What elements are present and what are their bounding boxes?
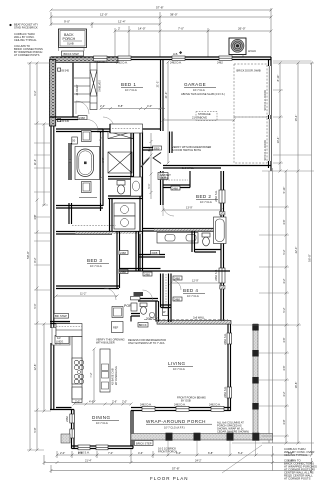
svg-text:CEDAR (WHERE SHOWN): CEDAR (WHERE SHOWN) [217, 430, 249, 434]
interior dim garage string [162, 119, 236, 122]
svg-text:5'-10": 5'-10" [282, 187, 286, 194]
wc toilet [117, 181, 125, 195]
kitchen island [100, 349, 110, 392]
svg-text:26'-0": 26'-0" [238, 27, 246, 31]
leader diagonal porch corner [222, 445, 262, 473]
svg-text:BED 4: BED 4 [183, 288, 198, 293]
porch slab band south [131, 433, 273, 441]
bed3 east wall [117, 232, 120, 289]
powder room walls [138, 299, 159, 322]
svg-text:STORAGE: STORAGE [198, 112, 211, 116]
utility north wall [142, 132, 172, 154]
dining west wall [70, 410, 75, 449]
right dimension line outer [310, 62, 313, 457]
svg-text:2462 D.H.: 2462 D.H. [209, 403, 221, 407]
svg-text:AT CORNER POSTS: AT CORNER POSTS [14, 53, 40, 57]
svg-text:BED 1: BED 1 [121, 82, 136, 87]
kitchen north counter [56, 324, 82, 337]
svg-text:AT CORNER POSTS: AT CORNER POSTS [284, 477, 311, 480]
door label 3050 [153, 146, 162, 150]
master tub racetrack [77, 149, 94, 177]
svg-text:BRICK: BRICK [139, 323, 147, 327]
svg-text:REF: REF [113, 326, 119, 330]
linen built-in tall [90, 63, 97, 110]
svg-text:2462 S.H.: 2462 S.H. [223, 386, 227, 398]
bed1 garage common wall [161, 60, 164, 132]
svg-text:38'-0": 38'-0" [170, 13, 178, 17]
hall east wall [136, 232, 139, 272]
angled wall opening triangle [153, 153, 161, 164]
east wall sill hatch 2 [220, 286, 226, 290]
interior dim string bed4 [170, 282, 223, 285]
svg-text:10'-7 CLG: 10'-7 CLG [125, 88, 137, 92]
east wall bedrooms [219, 171, 225, 322]
porch screen band east [252, 324, 258, 438]
svg-text:WRAP-AROUND PORCH: WRAP-AROUND PORCH [146, 419, 206, 424]
svg-text:5'-1": 5'-1" [147, 183, 151, 188]
master toilet below tub [82, 182, 92, 193]
svg-text:BRICK STEP: BRICK STEP [136, 442, 152, 446]
hose bib symbol top wall [173, 51, 182, 56]
wc south wall [108, 196, 142, 199]
water heater box [163, 308, 169, 316]
exterior landing steps west [52, 328, 70, 346]
bed2 door arc [163, 205, 174, 216]
room label GARAGE [181, 82, 225, 96]
bottom dimension tier 3 [50, 458, 314, 473]
svg-text:2462: 2462 [65, 416, 69, 422]
bed4 closet rod dashed [165, 274, 167, 306]
bath2 mid walls [192, 231, 221, 252]
svg-text:2'-0": 2'-0" [60, 451, 65, 455]
svg-text:2'-0": 2'-0" [75, 400, 80, 404]
master tub platform [75, 147, 100, 180]
pt deck note [221, 427, 223, 430]
room label BED 1 [121, 82, 143, 92]
bed3 closet rod [72, 225, 116, 227]
svg-text:SLAB: SLAB [67, 42, 74, 46]
svg-text:21'-9": 21'-9" [164, 92, 168, 99]
verify note center [172, 145, 211, 152]
svg-text:4'-6": 4'-6" [282, 337, 286, 342]
svg-text:2462 D.H.: 2462 D.H. [140, 403, 152, 407]
svg-text:6'-8": 6'-8" [288, 459, 293, 463]
side step SW [61, 434, 70, 443]
svg-text:2468: 2468 [144, 272, 150, 276]
dimension line top tier 1 (57'-8") [50, 8, 273, 57]
window living east 1 [227, 333, 232, 344]
svg-text:ABOVE: ABOVE [198, 116, 207, 120]
bottom dimension tier 2 [43, 446, 314, 471]
window living east 2 [227, 387, 232, 398]
living east wall [227, 322, 232, 411]
brick step label west [54, 314, 69, 319]
svg-text:14'-0": 14'-0" [138, 27, 146, 31]
interior dim bed3 [55, 295, 119, 298]
right dimension line porch posts [285, 170, 288, 445]
svg-text:21'-3": 21'-3" [156, 81, 160, 88]
brick label boxes hall south [138, 323, 148, 328]
svg-text:57'-8": 57'-8" [172, 467, 180, 471]
svg-text:2468: 2468 [174, 297, 180, 301]
svg-text:30HD CLG: 30HD CLG [146, 317, 159, 321]
bed2 room label [196, 194, 218, 204]
living ceiling break dashed [144, 316, 228, 321]
pantry box [112, 307, 123, 318]
svg-text:STAD FACE BRICK: STAD FACE BRICK [14, 26, 38, 30]
svg-text:10'-7 CLG (A.F.F.): 10'-7 CLG (A.F.F.) [164, 426, 185, 430]
svg-text:10'-7 CLG: 10'-7 CLG [187, 294, 199, 298]
west wall lower double line [50, 126, 62, 410]
bottom dimension tier 1 [56, 449, 314, 463]
kitchen sink counter [72, 387, 82, 399]
interior dim string above dining [73, 403, 133, 406]
svg-text:4'-6": 4'-6" [138, 451, 143, 455]
back porch slab box [59, 29, 87, 48]
entry door arc [76, 101, 89, 114]
svg-text:5'-4": 5'-4" [78, 451, 83, 455]
svg-text:12'-0": 12'-0" [100, 13, 108, 17]
svg-text:BY OSB: BY OSB [181, 399, 191, 403]
left dim connector stubs [27, 63, 51, 450]
bed1 entry door arc [103, 117, 114, 128]
closet mid wall [131, 132, 134, 197]
svg-text:42 BASE CAB: 42 BASE CAB [111, 368, 115, 385]
garage east wall [268, 57, 271, 171]
svg-text:4'-2": 4'-2" [282, 278, 286, 283]
house sw step wall [50, 408, 74, 410]
note block top-left text [14, 23, 43, 58]
note block top-left bullet [9, 24, 11, 26]
svg-text:5'-2": 5'-2" [282, 249, 286, 254]
svg-text:57'-8": 57'-8" [156, 6, 164, 10]
entry south wall [50, 117, 78, 120]
svg-text:WITH BUILDER: WITH BUILDER [96, 341, 115, 345]
side door opening west wall [50, 328, 55, 343]
svg-text:16'-7 CLG: 16'-7 CLG [193, 88, 205, 92]
bed3 door arc [104, 288, 116, 300]
svg-text:2462: 2462 [217, 61, 223, 65]
bath2 north wall [142, 229, 221, 232]
label B545 upper [58, 68, 70, 72]
entry door label [78, 116, 87, 120]
svg-text:2'-6": 2'-6" [112, 400, 117, 404]
svg-text:ABOVE: ABOVE [160, 177, 169, 180]
svg-text:7'-2": 7'-2" [89, 372, 93, 377]
bed4 door labels [143, 272, 152, 276]
svg-text:2468: 2468 [174, 276, 180, 280]
bath west partition wall [69, 143, 71, 180]
master bath north wall [56, 129, 103, 132]
svg-text:W/ OVERHANG: W/ OVERHANG [114, 366, 118, 385]
wc room walls [108, 177, 133, 180]
window top wall 2 [172, 56, 185, 60]
svg-text:11'-4": 11'-4" [33, 159, 37, 165]
svg-text:24'-2": 24'-2" [195, 459, 202, 463]
brick step box below back porch [59, 48, 85, 57]
garage overhead door 2 dashed [234, 117, 267, 163]
living room label [168, 361, 193, 371]
dining east edge [131, 411, 133, 449]
svg-text:10'-7 CLG: 10'-7 CLG [96, 421, 108, 425]
svg-text:21'-4": 21'-4" [85, 459, 92, 463]
porch columns note [217, 421, 249, 434]
svg-text:2462 S.H.: 2462 S.H. [214, 190, 218, 202]
svg-text:CEILING TYPICAL: CEILING TYPICAL [14, 38, 37, 42]
note block bottom-right [284, 447, 317, 480]
left dimension line inner [43, 123, 46, 413]
recess for refrigerator note [128, 338, 166, 345]
svg-text:4'-0": 4'-0" [147, 104, 152, 108]
svg-text:BRICK DOOR JAMB: BRICK DOOR JAMB [237, 69, 261, 73]
bed4 door arc [171, 280, 181, 290]
svg-text:SHELVES: SHELVES [98, 80, 102, 92]
master bath east wall [101, 129, 104, 211]
svg-text:12'-9": 12'-9" [192, 279, 199, 283]
dining room label [92, 415, 119, 425]
west exterior brick wall upper [50, 60, 56, 127]
laundry door 45 leaf [141, 158, 150, 168]
svg-text:12'-8": 12'-8" [33, 364, 37, 371]
entry closet shelf rungs [74, 78, 90, 102]
living south wall [131, 403, 231, 412]
svg-text:8'-2": 8'-2" [33, 257, 37, 262]
mud bench wall [131, 314, 140, 322]
svg-text:10'-4": 10'-4" [276, 137, 280, 144]
svg-text:2462 D.H.: 2462 D.H. [174, 403, 186, 407]
washer box [114, 203, 135, 216]
cabinet above note [160, 174, 171, 180]
entry door arc2 [87, 120, 98, 131]
svg-text:9'-2": 9'-2" [33, 90, 37, 95]
bath2 vanity [157, 233, 198, 244]
interior dim bed1 [100, 107, 166, 110]
right dimension line garage [279, 62, 282, 173]
svg-text:2'-0": 2'-0" [122, 400, 127, 404]
svg-text:9070 O.H. DOOR: 9070 O.H. DOOR [263, 140, 267, 160]
svg-text:2462 D.H.: 2462 D.H. [170, 61, 182, 65]
kitchen interior dim line [93, 348, 96, 404]
bed2 closet label [158, 173, 168, 180]
bed4 closet south [161, 305, 172, 308]
garage south wall [163, 166, 271, 169]
bed2 west wall [161, 171, 164, 205]
bed3 door label [119, 251, 128, 255]
hall door arc near powder [143, 290, 153, 300]
interior dim bed2 [162, 209, 223, 212]
bath label box 5050 [72, 137, 78, 144]
svg-text:BED 3: BED 3 [87, 258, 102, 263]
svg-text:9'-0": 9'-0" [64, 20, 70, 24]
svg-text:11'-2": 11'-2" [80, 292, 86, 296]
svg-text:22'-0": 22'-0" [294, 247, 298, 254]
bed4 room label [183, 288, 205, 298]
svg-text:21 DEEP: 21 DEEP [75, 84, 79, 95]
exterior top wall [50, 56, 271, 65]
master closet shelves box 1 [108, 132, 133, 139]
bed3 closet wall [69, 203, 72, 224]
porch east slab edge [269, 168, 273, 443]
svg-text:13'-9": 13'-9" [186, 206, 193, 210]
svg-text:3050: 3050 [154, 146, 160, 150]
svg-text:2468: 2468 [152, 251, 158, 255]
svg-text:LIVING: LIVING [168, 361, 185, 366]
bed2 closet [163, 171, 190, 188]
svg-text:GARAGE: GARAGE [184, 82, 206, 87]
svg-text:56'-0": 56'-0" [308, 254, 312, 262]
right dim connector stubs [232, 61, 314, 443]
bath2 door label [151, 251, 160, 255]
window living south 3 [211, 406, 224, 411]
window top wall 1 [118, 56, 131, 60]
svg-text:6'-0": 6'-0" [176, 451, 181, 455]
svg-text:6'-8": 6'-8" [101, 157, 105, 162]
svg-text:4'-6": 4'-6" [89, 400, 94, 404]
svg-text:8'-0": 8'-0" [288, 451, 293, 455]
bottom porch post ticks [168, 441, 256, 456]
svg-text:5'-4": 5'-4" [238, 451, 243, 455]
front porch step label [158, 447, 177, 454]
refrigerator box [112, 322, 124, 333]
entry closet west wall [72, 63, 74, 118]
svg-text:7'-0": 7'-0" [178, 27, 184, 31]
stove dark box [134, 292, 144, 296]
svg-text:2'-2": 2'-2" [100, 104, 105, 108]
powder sink [149, 312, 154, 317]
svg-text:LNDG: LNDG [56, 340, 63, 344]
svg-text:2468: 2468 [120, 270, 126, 274]
svg-text:ABOVE THIS HOUSE SLAB (4 R.I.S: ABOVE THIS HOUSE SLAB (4 R.I.S.) [181, 92, 225, 96]
ext landing label [55, 336, 69, 344]
dimension line top tier 3 (19'-0") [50, 22, 162, 28]
wall jog bed4 to living hatched [157, 321, 231, 325]
garage storage dashed box [196, 112, 217, 121]
svg-text:16'-8": 16'-8" [294, 382, 298, 389]
svg-text:ONLY EXTENDS UP TO 7' AFA: ONLY EXTENDS UP TO 7' AFA [128, 341, 165, 345]
left dimension line mid [36, 62, 39, 452]
east wall sill hatch 1 [220, 212, 226, 216]
dimension line top tier 4 [114, 12, 273, 57]
svg-text:2468: 2468 [172, 186, 178, 190]
verify opening note kitchen [96, 338, 125, 345]
svg-text:FRONT PORCH: FRONT PORCH [158, 450, 177, 454]
svg-text:4'-6": 4'-6" [282, 219, 286, 224]
svg-text:6'-8": 6'-8" [208, 451, 213, 455]
svg-text:5'-2": 5'-2" [282, 307, 286, 312]
left dimension line outer [29, 62, 32, 452]
bath2 tub [214, 217, 227, 244]
master bath south wall [56, 206, 103, 209]
svg-text:2462 S.H.: 2462 S.H. [214, 269, 218, 281]
bath shelf line [79, 197, 97, 199]
dimension line top tier 2 (38'-0") [50, 16, 273, 19]
dryer box [114, 216, 135, 229]
svg-text:4'-2": 4'-2" [282, 391, 286, 396]
label B545 lower [58, 119, 70, 123]
master closet north walls [97, 129, 161, 132]
window living south 2 [176, 406, 189, 411]
svg-text:4'-6": 4'-6" [282, 365, 286, 370]
bed4 west closet wall [161, 274, 164, 308]
svg-text:BR. STEP: BR. STEP [55, 314, 67, 318]
window east bed2 [219, 190, 225, 203]
bath2 toilet [202, 233, 210, 246]
dining south wall [72, 445, 134, 455]
svg-text:5'-0": 5'-0" [33, 303, 37, 308]
svg-text:2468: 2468 [120, 251, 126, 255]
svg-text:8'-8": 8'-8" [118, 104, 123, 108]
svg-text:2x6 WALL: 2x6 WALL [182, 166, 194, 170]
powder toilet [140, 303, 147, 314]
svg-text:50'-0": 50'-0" [26, 251, 30, 259]
window east bed4 [219, 268, 225, 283]
svg-text:5'-8": 5'-8" [33, 427, 37, 432]
master shower [82, 131, 92, 142]
svg-text:FLOOR PLAN: FLOOR PLAN [150, 476, 189, 480]
right dimension line mid [297, 62, 300, 445]
master closet shelves box 2 [108, 152, 132, 173]
bath2 south wall [138, 255, 165, 258]
svg-text:2462 D.H.: 2462 D.H. [116, 61, 128, 65]
svg-text:2x6 WALL: 2x6 WALL [193, 316, 205, 320]
svg-text:2468: 2468 [79, 116, 85, 120]
laundry south wall hatch [75, 232, 142, 234]
bed1 closet [110, 124, 143, 133]
bed4 closet east wall [169, 274, 172, 323]
HVAC unit pad [229, 38, 257, 57]
svg-text:21'-3": 21'-3" [192, 116, 199, 120]
svg-text:7'-0": 7'-0" [108, 451, 113, 455]
svg-text:15'-4": 15'-4" [294, 115, 298, 122]
svg-text:8'-10": 8'-10" [276, 75, 280, 82]
laundry left appliance [131, 177, 142, 196]
bed3 room label [87, 258, 109, 268]
svg-text:10'-7 CLG: 10'-7 CLG [173, 367, 185, 371]
window top wall 3 [219, 56, 232, 60]
svg-text:10'-7 CLG: 10'-7 CLG [200, 200, 212, 204]
svg-text:12'-4": 12'-4" [118, 20, 126, 24]
svg-text:H.B.: H.B. [173, 52, 178, 56]
wrap-around porch label [146, 419, 212, 430]
bed2 closet door label [171, 186, 180, 190]
garage interior dim line [167, 61, 170, 165]
window living south 1 [142, 406, 155, 411]
kitchen west counter with range [72, 337, 84, 403]
brick step box front porch [135, 441, 154, 446]
svg-text:4'-8": 4'-8" [282, 419, 286, 424]
hall west wall center [140, 132, 143, 272]
bed3 door 2 label [119, 270, 128, 274]
svg-text:BRICK STEP: BRICK STEP [64, 52, 80, 56]
small box left of powder [131, 303, 137, 311]
svg-text:HVAC: HVAC [248, 49, 257, 53]
svg-text:& DOOR SWITCH BOTH: & DOOR SWITCH BOTH [172, 148, 201, 152]
laundry walls [110, 199, 113, 233]
hall cross walls center [119, 269, 230, 272]
hall center dim string [150, 133, 153, 199]
bath interior dim [99, 133, 102, 203]
svg-text:BED 2: BED 2 [196, 194, 211, 199]
svg-text:10'-7 CLG: 10'-7 CLG [90, 264, 102, 268]
svg-text:IB 545: IB 545 [62, 68, 70, 72]
svg-text:PORCH: PORCH [63, 37, 76, 41]
kitchen west step wall [50, 322, 70, 324]
garage overhead door 1 dashed [234, 64, 267, 117]
front porch beams note [177, 396, 206, 403]
svg-text:9070 O.H. DOOR: 9070 O.H. DOOR [263, 90, 267, 110]
svg-text:4'-2": 4'-2" [147, 146, 151, 151]
bed3 south wall [56, 286, 119, 289]
